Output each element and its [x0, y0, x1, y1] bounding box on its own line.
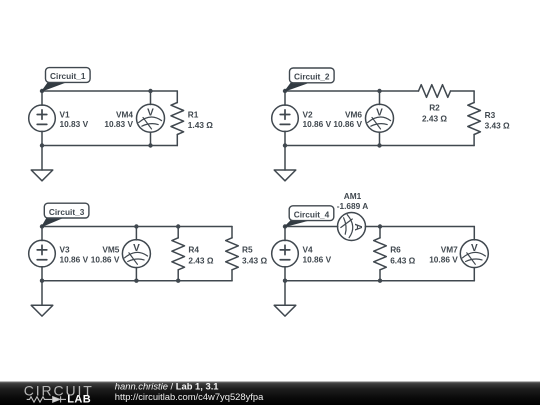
- wire V2 top lead: [284, 91, 286, 105]
- ammeter AM1: [338, 213, 366, 241]
- wire bottom C2: [285, 145, 474, 147]
- ground C4: [274, 281, 296, 316]
- wire bottom C4: [285, 280, 474, 282]
- node C3 R4 bottom: [176, 279, 180, 283]
- wire VM7 bottom lead: [473, 267, 475, 280]
- svg-text:V3: V3: [60, 245, 71, 255]
- svg-text:AM1: AM1: [344, 191, 362, 201]
- node C3 VM5 top: [134, 224, 138, 228]
- wire VM4 top lead: [150, 91, 152, 105]
- ground C3: [31, 281, 53, 316]
- footer bar: [0, 382, 540, 406]
- node C1 V1 bottom: [40, 143, 44, 147]
- wire R6 bottom lead: [379, 270, 381, 281]
- svg-text:10.86 V: 10.86 V: [60, 255, 89, 265]
- svg-text:V: V: [147, 108, 154, 119]
- resistor R2: [419, 85, 451, 98]
- wire bottom C3: [42, 280, 232, 282]
- node C2 V2 bottom: [283, 143, 287, 147]
- wire V3 top lead: [41, 227, 43, 241]
- svg-text:2.43 Ω: 2.43 Ω: [188, 255, 213, 265]
- voltmeter VM6: [366, 104, 394, 132]
- wire top-left C4: [285, 226, 338, 228]
- wire V1 bottom lead: [41, 131, 43, 145]
- resistor R4: [172, 238, 185, 270]
- wire top-right C2: [451, 90, 475, 92]
- wire R3 bottom lead: [473, 135, 475, 146]
- svg-text:A: A: [352, 223, 364, 231]
- voltage source V1: [29, 105, 56, 132]
- svg-text:Circuit_1: Circuit_1: [50, 71, 86, 81]
- wire VM6 top lead: [379, 91, 381, 105]
- svg-text:10.86 V: 10.86 V: [303, 119, 332, 129]
- voltage source V4: [272, 240, 299, 267]
- svg-text:V: V: [133, 243, 140, 254]
- node C1 V1 top: [40, 89, 44, 93]
- wire R6 top lead: [379, 227, 381, 238]
- wire R3 top lead: [473, 91, 475, 103]
- wire R4 top lead: [177, 227, 179, 238]
- svg-text:V: V: [471, 243, 478, 254]
- svg-text:10.86 V: 10.86 V: [303, 255, 332, 265]
- wire V4 bottom lead: [284, 267, 286, 281]
- svg-text:-1.689 A: -1.689 A: [337, 201, 369, 211]
- svg-text:6.43 Ω: 6.43 Ω: [390, 255, 415, 265]
- wire R5 bottom lead: [231, 270, 233, 281]
- node C1 VM4 bottom: [148, 143, 152, 147]
- node C4 R6 top: [378, 224, 382, 228]
- wire R1 top lead: [176, 91, 178, 103]
- wire top-right C4: [365, 226, 474, 228]
- wire top C3: [42, 226, 232, 228]
- svg-text:VM4: VM4: [116, 109, 133, 119]
- svg-text:10.83 V: 10.83 V: [104, 119, 133, 129]
- callout Circuit_2: [285, 68, 334, 91]
- svg-text:R3: R3: [485, 110, 496, 120]
- svg-text:R4: R4: [188, 245, 199, 255]
- svg-text:R1: R1: [188, 109, 199, 119]
- svg-text:LAB: LAB: [67, 394, 91, 405]
- svg-text:3.43 Ω: 3.43 Ω: [485, 120, 510, 130]
- svg-text:R2: R2: [429, 102, 440, 112]
- svg-text:VM7: VM7: [441, 245, 458, 255]
- node C3 R4 top: [176, 224, 180, 228]
- wire V4 top lead: [284, 227, 286, 241]
- footer logo schematic squiggle: [27, 396, 66, 402]
- callout Circuit_4: [285, 206, 334, 227]
- wire top-left C2: [285, 90, 419, 92]
- wire V1 top lead: [41, 91, 43, 105]
- ground C2: [274, 146, 296, 181]
- wire VM5 top lead: [135, 227, 137, 240]
- wire VM6 bottom lead: [379, 132, 381, 145]
- callout Circuit_3: [42, 203, 89, 226]
- ground C1: [31, 146, 53, 181]
- node C2 VM6 top: [377, 89, 381, 93]
- callout Circuit_1: [42, 68, 90, 91]
- svg-text:10.83 V: 10.83 V: [60, 119, 89, 129]
- svg-text:hann.christie / Lab 1, 3.1: hann.christie / Lab 1, 3.1: [115, 381, 219, 392]
- node C2 VM6 bottom: [377, 143, 381, 147]
- svg-text:Circuit_4: Circuit_4: [294, 209, 330, 219]
- wire top C1: [42, 90, 177, 92]
- svg-text:10.86 V: 10.86 V: [91, 255, 120, 265]
- wire R5 top lead: [231, 227, 233, 238]
- svg-text:10.86 V: 10.86 V: [333, 119, 362, 129]
- svg-text:Circuit_3: Circuit_3: [49, 207, 85, 217]
- svg-text:V: V: [376, 108, 383, 119]
- voltage source V2: [272, 105, 299, 132]
- wire VM7 top lead: [473, 227, 475, 240]
- svg-text:Circuit_2: Circuit_2: [294, 72, 330, 82]
- svg-text:R6: R6: [390, 245, 401, 255]
- node C4 R6 bottom: [378, 279, 382, 283]
- voltmeter VM5: [122, 240, 150, 268]
- node C2 V2 top: [283, 89, 287, 93]
- svg-text:VM6: VM6: [345, 109, 362, 119]
- resistor R6: [374, 238, 387, 270]
- svg-text:VM5: VM5: [102, 245, 119, 255]
- svg-text:10.86 V: 10.86 V: [429, 255, 458, 265]
- svg-text:V4: V4: [303, 245, 314, 255]
- wire R4 bottom lead: [177, 270, 179, 281]
- svg-text:V1: V1: [60, 109, 71, 119]
- wire V3 bottom lead: [41, 267, 43, 281]
- svg-text:1.43 Ω: 1.43 Ω: [188, 120, 213, 130]
- resistor R1: [171, 103, 184, 135]
- node C3 V3 top: [40, 224, 44, 228]
- node C4 V4 bottom: [283, 279, 287, 283]
- node C4 V4 top: [283, 224, 287, 228]
- wire R1 bottom lead: [176, 135, 178, 146]
- node C1 VM4 top: [148, 89, 152, 93]
- wire V2 bottom lead: [284, 131, 286, 145]
- svg-text:R5: R5: [242, 245, 253, 255]
- voltmeter VM4: [137, 104, 165, 132]
- resistor R3: [468, 103, 481, 135]
- svg-text:V2: V2: [303, 109, 314, 119]
- svg-text:2.43 Ω: 2.43 Ω: [422, 113, 447, 123]
- wire VM4 bottom lead: [150, 132, 152, 145]
- voltage source V3: [29, 240, 56, 267]
- node C3 VM5 bottom: [134, 279, 138, 283]
- wire bottom C1: [42, 145, 177, 147]
- svg-text:http://circuitlab.com/c4w7yq52: http://circuitlab.com/c4w7yq528yfpa: [115, 391, 264, 402]
- resistor R5: [226, 238, 239, 270]
- wire VM5 bottom lead: [135, 267, 137, 280]
- voltmeter VM7: [460, 240, 488, 268]
- node C3 V3 bottom: [40, 279, 44, 283]
- svg-text:3.43 Ω: 3.43 Ω: [242, 255, 267, 265]
